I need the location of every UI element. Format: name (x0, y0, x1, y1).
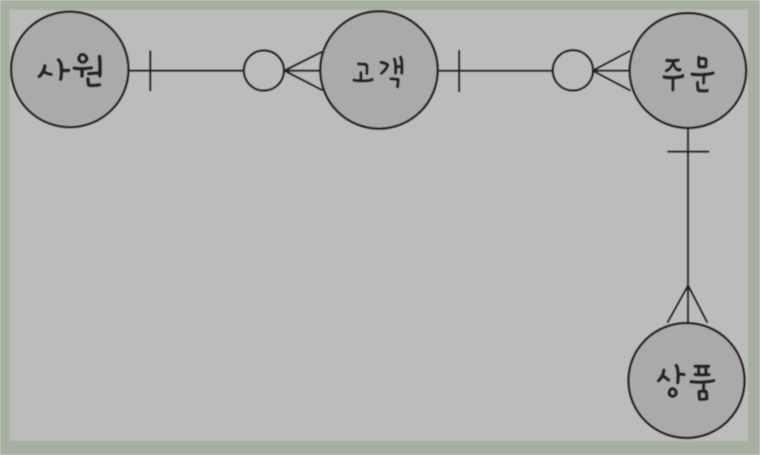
label text 상품 (657, 364, 715, 401)
label text 사원 (38, 53, 102, 87)
tick: cardinality one (near 사원) (149, 51, 151, 90)
entity circle 상품 (628, 323, 744, 438)
tick: cardinality one (near 고객) (458, 51, 460, 91)
wire: relationship line 사원-고객 (129, 69, 244, 71)
wire: relationship line 주문-상품 (vertical) (687, 128, 689, 324)
tick: cardinality one (near 주문) (668, 151, 708, 153)
wire: relationship line 고객-주문 (438, 70, 553, 72)
label text 고객 (353, 56, 404, 88)
entity circle 고객 (320, 11, 438, 128)
crow's foot into 주문 (593, 51, 630, 90)
optionality circle on 고객-주문 line (553, 50, 593, 90)
crow's foot into 상품 (668, 286, 707, 323)
entity circle 주문 (630, 13, 747, 128)
optionality circle on 사원-고객 line (244, 50, 284, 90)
crow's foot into 고객 (284, 52, 321, 90)
entity circle 사원 (11, 12, 128, 128)
label text 주문 (663, 56, 715, 93)
